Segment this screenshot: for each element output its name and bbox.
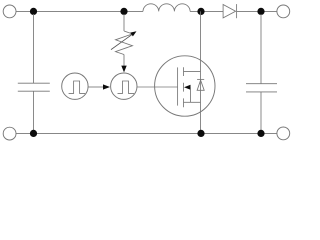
wire inductor to drain node bbox=[190, 10, 223, 12]
terminal output + (top right) bbox=[277, 5, 290, 18]
capacitor C2 (output) bbox=[246, 84, 277, 92]
wire top rail left bbox=[16, 10, 143, 12]
variable resistor R1 (rheostat, control) bbox=[111, 31, 137, 55]
capacitor C1 (input) bbox=[18, 83, 50, 91]
inductor L1 bbox=[143, 4, 190, 12]
wire diode to output node bbox=[237, 10, 277, 12]
wire U1 to U2 with arrow bbox=[88, 84, 110, 89]
node junction bottom-middle bbox=[197, 130, 204, 137]
transistor Q1 source stub bbox=[184, 101, 201, 103]
pulse modulator U2 bbox=[111, 73, 137, 99]
terminal input - (bottom left) bbox=[3, 127, 16, 140]
transistor Q1 body diode bbox=[197, 79, 204, 90]
terminal output - (bottom right) bbox=[277, 127, 290, 140]
node junction bottom-left bbox=[30, 130, 37, 137]
node junction top-left bbox=[30, 8, 37, 15]
wire output cap branch lower bbox=[260, 92, 262, 131]
node junction top-right bbox=[257, 8, 264, 15]
oscillator U1 (pulse source) bbox=[62, 73, 88, 99]
transistor Q1 channel segment bottom bbox=[183, 98, 185, 107]
node junction bottom-right bbox=[257, 130, 264, 137]
wire resistor branch upper bbox=[123, 14, 125, 31]
terminal input + (top left) bbox=[3, 5, 16, 18]
transistor Q1 (MOSFET) body circle bbox=[155, 56, 215, 116]
wire drain-source vertical bbox=[200, 11, 202, 133]
transistor Q1 body arrow bbox=[184, 85, 191, 103]
transistor Q1 channel segment top bbox=[183, 67, 185, 76]
transistor Q1 gate bar bbox=[177, 67, 179, 105]
wire control arrow into modulator bbox=[121, 55, 126, 73]
wire output cap branch upper bbox=[260, 14, 262, 84]
wire bottom rail bbox=[16, 132, 277, 134]
diode D1 bbox=[223, 4, 237, 18]
wire input cap branch upper bbox=[33, 14, 35, 83]
transistor Q1 channel segment middle bbox=[183, 83, 185, 92]
transistor Q1 drain stub bbox=[184, 71, 201, 73]
wire gate lead bbox=[137, 86, 178, 88]
node junction drain (top) bbox=[197, 8, 204, 15]
node junction top-middle bbox=[120, 8, 127, 15]
wire input cap branch lower bbox=[33, 91, 35, 131]
